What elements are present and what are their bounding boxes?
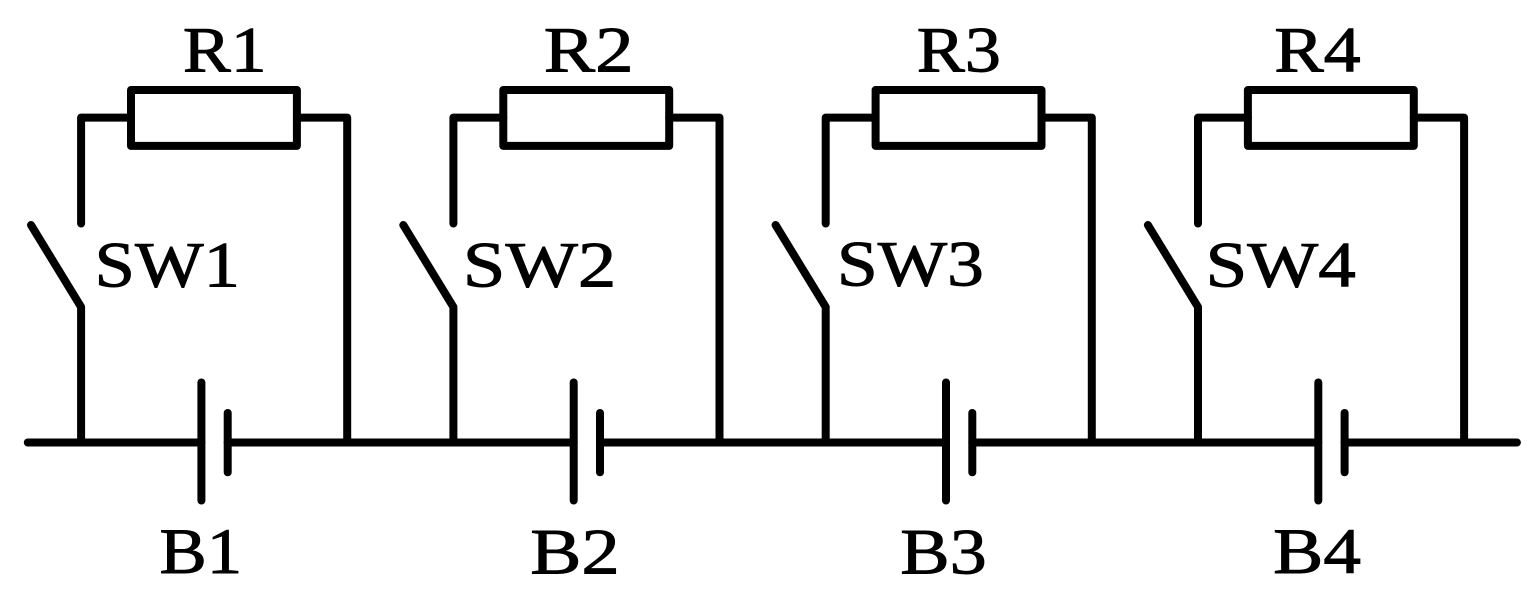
cell 3: wire right stub + right leg <box>1042 118 1092 443</box>
battery B1 short plate <box>224 413 232 472</box>
resistor R4 <box>1248 90 1414 146</box>
cell 2: wire left leg + top stub <box>453 118 503 224</box>
svg-text:SW4: SW4 <box>1206 229 1356 301</box>
switch SW3 blade + lower leg wire <box>776 225 826 443</box>
battery B4 long plate <box>1314 383 1322 501</box>
cell 1: wire left leg + top stub <box>81 118 131 224</box>
svg-text:B3: B3 <box>900 517 986 589</box>
battery B1 long plate <box>197 383 205 501</box>
cell 4: wire right stub + right leg <box>1414 118 1464 443</box>
svg-text:B1: B1 <box>160 515 243 588</box>
main bus wire segment 3 <box>600 439 946 447</box>
svg-text:SW3: SW3 <box>837 228 984 300</box>
battery B4 short plate <box>1341 413 1349 472</box>
svg-text:R2: R2 <box>544 14 634 86</box>
switch SW4 blade + lower leg wire <box>1148 225 1198 443</box>
switch SW2 blade + lower leg wire <box>403 225 453 443</box>
battery B3 short plate <box>968 413 976 472</box>
main bus wire segment 2 <box>228 439 574 447</box>
battery B2 long plate <box>570 383 578 501</box>
svg-text:SW1: SW1 <box>95 229 240 301</box>
resistor R1 <box>131 90 297 146</box>
cell 3: wire left leg + top stub <box>826 118 876 224</box>
cell 2: wire right stub + right leg <box>669 118 719 443</box>
battery B3 long plate <box>942 383 950 501</box>
svg-text:B4: B4 <box>1273 516 1361 588</box>
resistor R2 <box>503 90 669 146</box>
cell 1: wire right stub + right leg <box>297 118 347 443</box>
svg-text:SW2: SW2 <box>463 230 617 301</box>
svg-text:R3: R3 <box>917 14 1001 86</box>
switch SW1 blade + lower leg wire <box>31 225 81 443</box>
cell 4: wire left leg + top stub <box>1198 118 1248 224</box>
svg-text:R4: R4 <box>1274 15 1361 87</box>
battery B2 short plate <box>596 413 604 472</box>
svg-text:R1: R1 <box>183 13 267 85</box>
resistor R3 <box>876 90 1042 146</box>
main bus wire segment 4 <box>972 439 1318 447</box>
main bus wire segment 5 <box>1345 439 1517 447</box>
main bus wire segment 1 <box>28 439 202 447</box>
svg-text:B2: B2 <box>530 517 620 588</box>
